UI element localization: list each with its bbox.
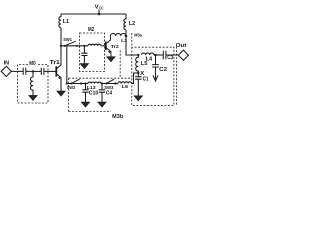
svg-text:C3: C3 [167, 55, 173, 61]
inductor L2 [124, 14, 126, 30]
port IN [4, 61, 10, 67]
wire L4 to C3 [154, 54, 163, 56]
wire L2 node down to output row [126, 36, 138, 55]
switch SW1 [63, 37, 72, 43]
svg-text:M3a: M3a [134, 33, 142, 39]
wire L6 up to node X [132, 73, 139, 84]
inductor L4 [142, 53, 154, 55]
svg-text:C1: C1 [143, 77, 149, 83]
box M2 [80, 33, 105, 72]
svg-text:IN: IN [4, 61, 10, 67]
svg-text:L6: L6 [122, 84, 129, 90]
wire M2 to Tr2 base [101, 45, 106, 47]
svg-text:L2: L2 [129, 21, 135, 27]
wire C3 to Out [166, 54, 178, 56]
svg-text:C10: C10 [89, 91, 99, 97]
node X [137, 72, 139, 74]
svg-text:L4: L4 [146, 56, 153, 62]
switch SW2 [67, 85, 76, 91]
port Out [176, 43, 187, 49]
capacitor in M2 (shunt) [81, 46, 87, 64]
transistor Tr2 [111, 44, 120, 50]
ground C1 [135, 96, 143, 101]
wire L2 to node [125, 30, 127, 36]
svg-text:M0: M0 [29, 61, 35, 67]
capacitor C10 [82, 84, 88, 103]
svg-text:SW3: SW3 [104, 85, 113, 91]
node C4 tap [101, 82, 103, 84]
node L2/L3 junction [125, 35, 128, 38]
Vcc rail wire [61, 13, 126, 15]
node L5 top [137, 54, 139, 56]
box M0 [18, 65, 49, 104]
inductor L5 [136, 55, 139, 73]
transistor Tr1 [50, 60, 60, 66]
node M0 shunt tap [32, 70, 34, 72]
label M3a [134, 33, 142, 39]
inductor L1 [59, 14, 61, 28]
node C2 tap [154, 54, 156, 56]
wire SW1 row down to SW2 row [66, 46, 68, 84]
ground Tr2 emitter [107, 57, 115, 62]
inductor in M0 (shunt) [30, 71, 33, 95]
Vcc stub wire [98, 10, 100, 14]
svg-text:L13: L13 [87, 85, 96, 91]
ground Tr1 emitter [57, 91, 65, 96]
capacitor C3 [163, 51, 166, 60]
node Vcc junction [98, 13, 101, 16]
node M2 cap tap [83, 45, 85, 47]
svg-text:L1: L1 [63, 19, 69, 25]
node C10 tap [84, 82, 86, 84]
ground C4 [98, 102, 106, 107]
wire IN to M0 [11, 70, 23, 72]
capacitor C4 [99, 84, 105, 103]
svg-text:Tr2: Tr2 [111, 44, 120, 50]
inductor L13 [88, 82, 101, 84]
Vcc label [95, 5, 104, 11]
capacitor C in M0 (series, right) [41, 68, 44, 75]
svg-text:SW1: SW1 [63, 37, 72, 43]
svg-text:C4: C4 [106, 90, 112, 96]
capacitor C1 [135, 73, 141, 96]
svg-text:Tr1: Tr1 [50, 60, 60, 66]
capacitor C in M0 (series, left) [23, 68, 33, 75]
svg-text:Out: Out [176, 43, 187, 49]
wire tap to cap2 [33, 70, 41, 72]
ground M2 cap [81, 64, 89, 69]
node collector junction [60, 45, 62, 47]
svg-text:M2: M2 [88, 27, 94, 33]
inductor L6 [118, 82, 132, 84]
box M3a right [132, 33, 177, 106]
svg-text:M3b: M3b [112, 114, 123, 120]
wire M0 to Tr1 base [44, 70, 56, 72]
wire L13 to C4 tap [101, 83, 107, 85]
box M3b [69, 50, 132, 111]
ground M0 [29, 96, 37, 101]
svg-text:C2: C2 [159, 67, 167, 73]
capacitor C2 [152, 55, 159, 80]
ground arrow C2 [153, 75, 158, 81]
switch SW3 [104, 85, 113, 91]
svg-text:SW2: SW2 [67, 85, 76, 91]
ground C10 [82, 102, 90, 107]
svg-text:CC: CC [99, 5, 103, 10]
wire L1 to SW1 row [60, 28, 62, 46]
inductor M2 (series) [88, 44, 101, 46]
inductor L3 [111, 33, 126, 36]
